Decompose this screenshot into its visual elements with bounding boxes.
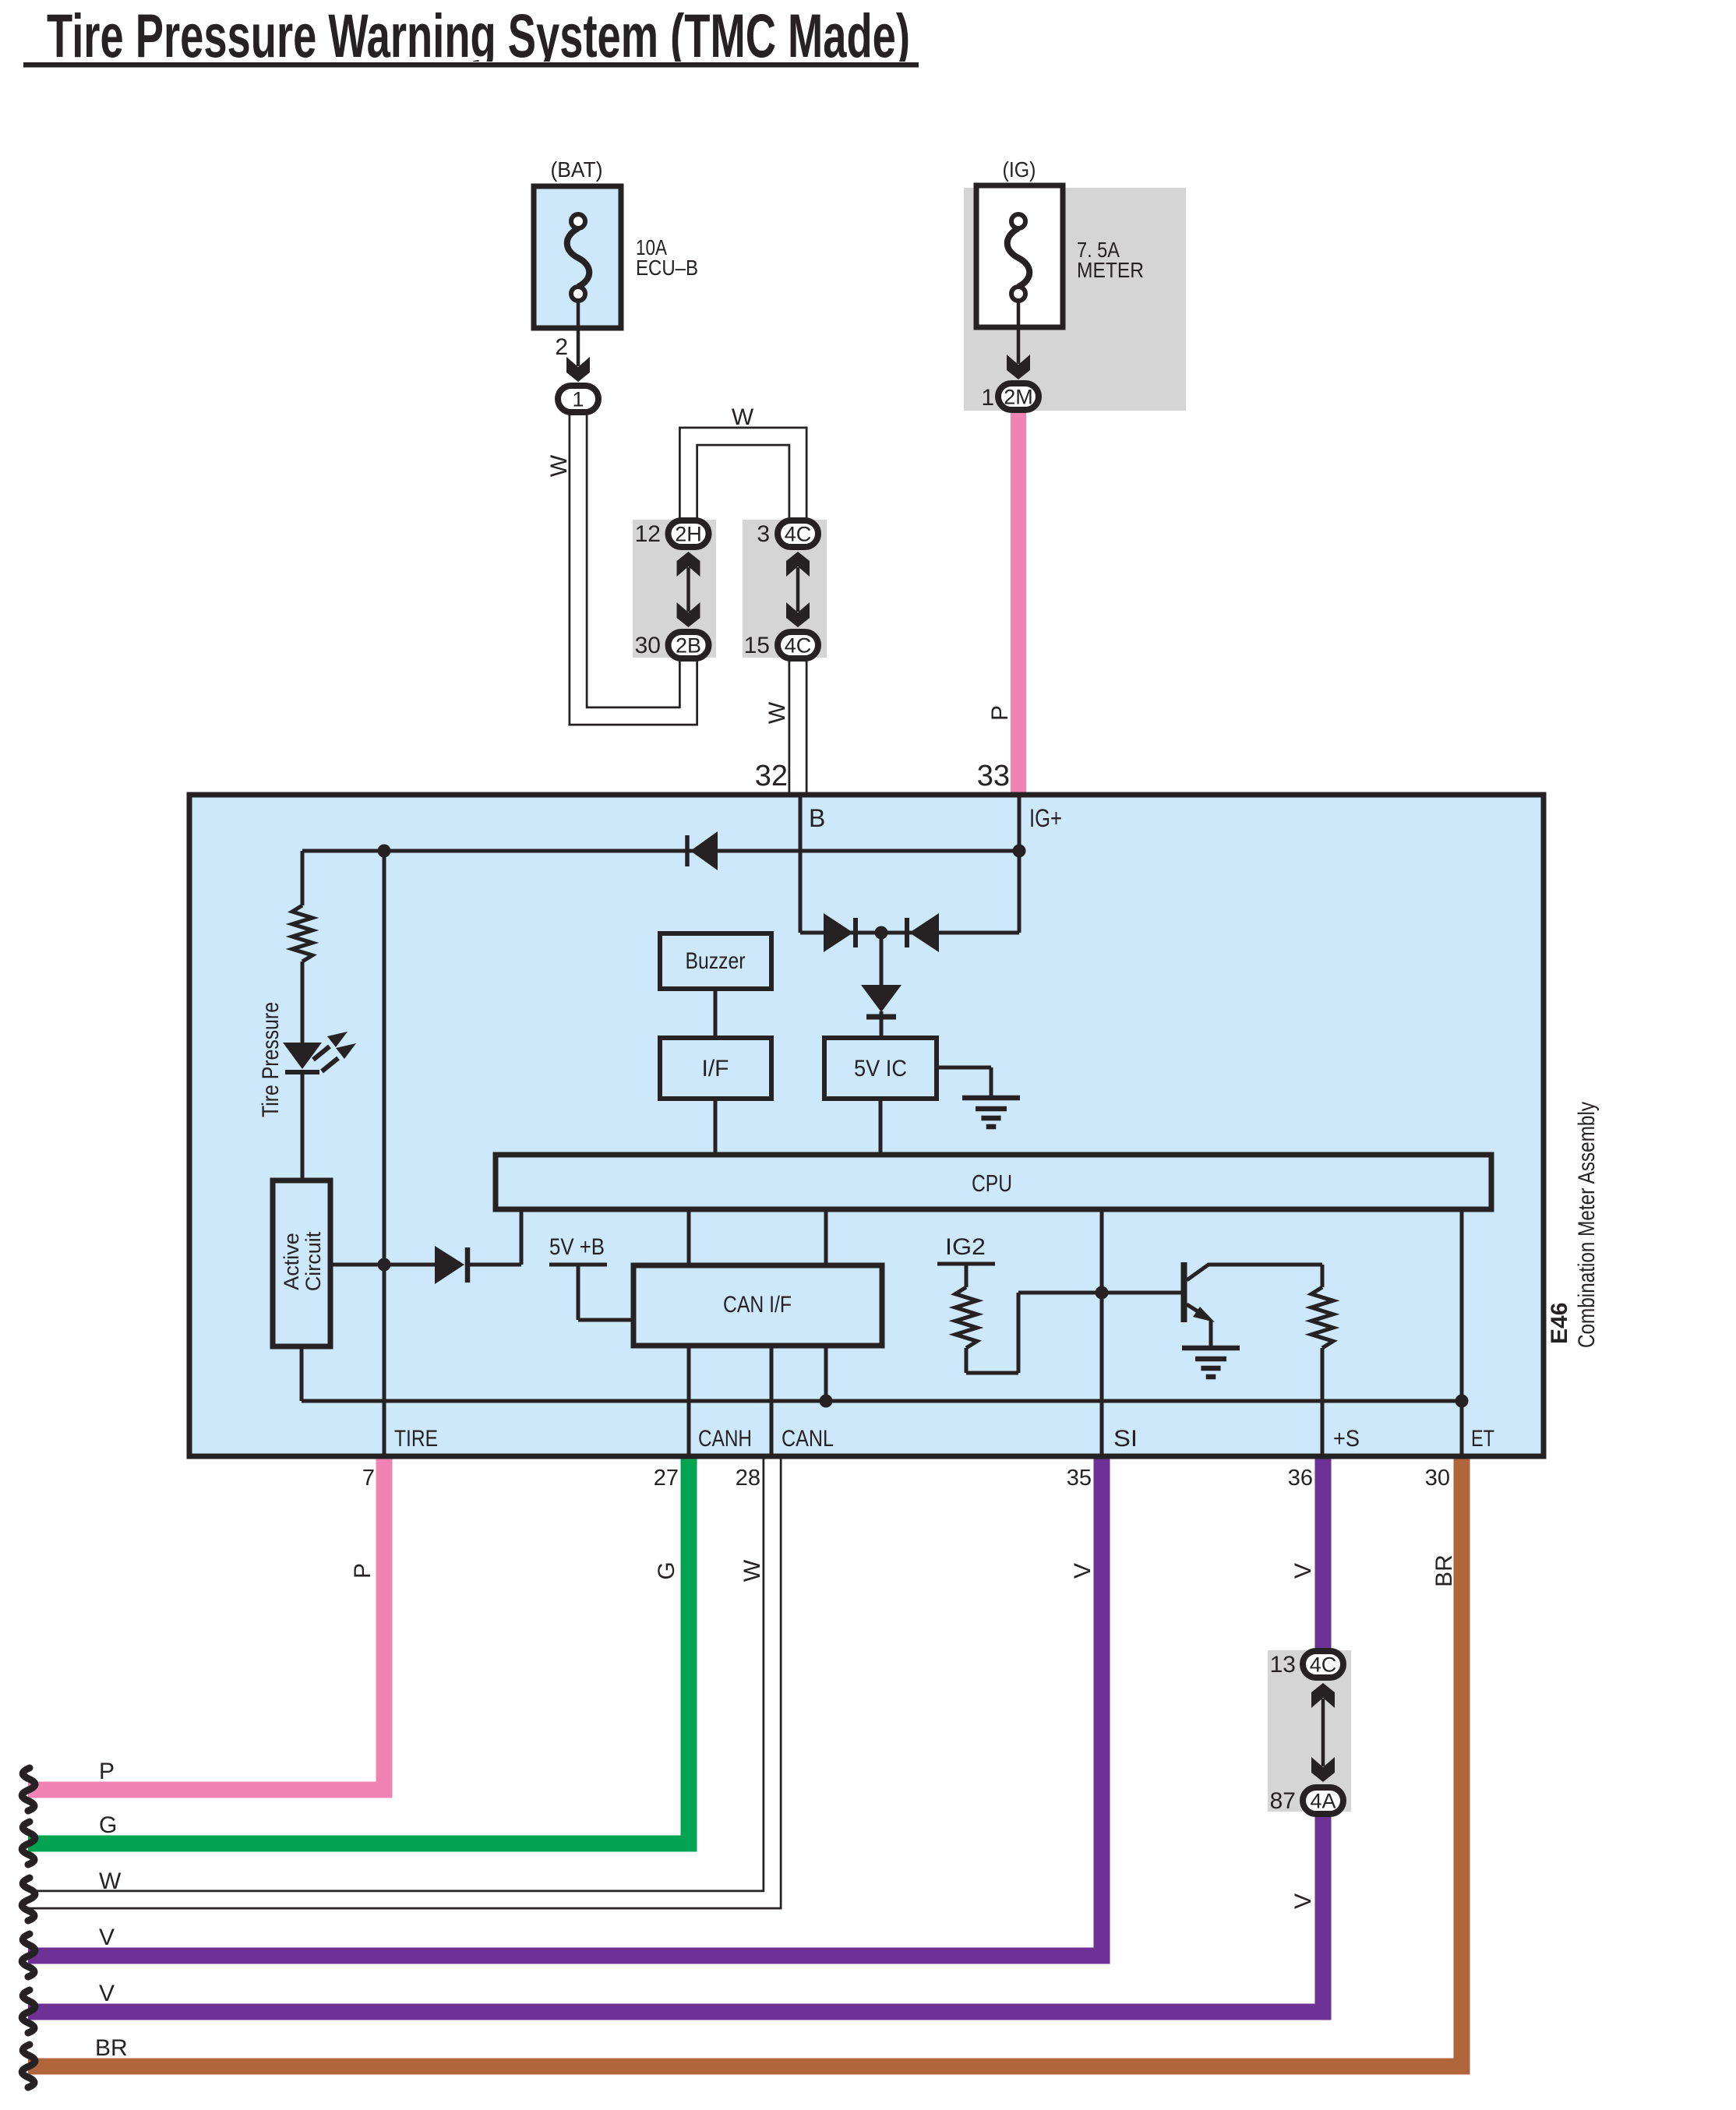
svg-text:METER: METER bbox=[1077, 258, 1144, 282]
svg-text:33: 33 bbox=[977, 760, 1010, 792]
svg-text:1: 1 bbox=[572, 388, 584, 411]
svg-text:W: W bbox=[732, 404, 754, 430]
svg-text:3: 3 bbox=[757, 521, 770, 547]
svg-text:Circuit: Circuit bbox=[302, 1231, 325, 1291]
svg-text:30: 30 bbox=[1425, 1466, 1450, 1491]
svg-text:V: V bbox=[99, 1981, 115, 2006]
svg-text:Tire Pressure: Tire Pressure bbox=[258, 1002, 284, 1117]
svg-text:2M: 2M bbox=[1004, 386, 1033, 409]
svg-text:BR: BR bbox=[1431, 1554, 1457, 1587]
svg-text:TIRE: TIRE bbox=[394, 1426, 438, 1452]
svg-text:BR: BR bbox=[95, 2035, 128, 2061]
svg-text:Buzzer: Buzzer bbox=[686, 948, 746, 974]
svg-text:Active: Active bbox=[280, 1233, 303, 1290]
svg-text:32: 32 bbox=[755, 760, 788, 792]
svg-text:+S: +S bbox=[1333, 1426, 1360, 1452]
svg-text:G: G bbox=[654, 1561, 679, 1579]
svg-text:Tire Pressure Warning System (: Tire Pressure Warning System (TMC Made) bbox=[47, 1, 910, 70]
svg-text:87: 87 bbox=[1270, 1788, 1296, 1814]
svg-text:13: 13 bbox=[1270, 1652, 1296, 1678]
svg-text:W: W bbox=[99, 1868, 122, 1894]
svg-text:7: 7 bbox=[362, 1466, 375, 1491]
svg-text:28: 28 bbox=[736, 1466, 760, 1491]
svg-text:CPU: CPU bbox=[972, 1170, 1012, 1197]
svg-text:V: V bbox=[1290, 1893, 1316, 1909]
svg-text:IG2: IG2 bbox=[945, 1234, 986, 1260]
svg-text:4C: 4C bbox=[785, 634, 812, 658]
svg-text:4C: 4C bbox=[1310, 1653, 1337, 1677]
svg-text:2: 2 bbox=[555, 334, 568, 360]
svg-text:V: V bbox=[1070, 1563, 1096, 1579]
svg-text:IG+: IG+ bbox=[1029, 804, 1062, 832]
svg-text:E46: E46 bbox=[1547, 1303, 1572, 1344]
svg-text:12: 12 bbox=[635, 521, 661, 547]
svg-text:35: 35 bbox=[1067, 1466, 1092, 1491]
svg-text:SI: SI bbox=[1113, 1426, 1138, 1452]
svg-text:4C: 4C bbox=[785, 523, 812, 546]
svg-text:P: P bbox=[987, 705, 1013, 721]
svg-text:5V +B: 5V +B bbox=[549, 1234, 605, 1260]
svg-text:4A: 4A bbox=[1310, 1790, 1336, 1813]
svg-text:B: B bbox=[809, 804, 825, 832]
svg-text:ET: ET bbox=[1471, 1426, 1494, 1452]
svg-text:2H: 2H bbox=[675, 523, 702, 546]
svg-text:CANH: CANH bbox=[698, 1426, 752, 1452]
svg-text:P: P bbox=[350, 1563, 376, 1579]
svg-text:15: 15 bbox=[744, 633, 770, 658]
svg-text:W: W bbox=[546, 454, 572, 477]
svg-text:CAN I/F: CAN I/F bbox=[723, 1292, 792, 1318]
svg-text:P: P bbox=[99, 1759, 115, 1784]
svg-text:V: V bbox=[99, 1925, 115, 1950]
svg-text:V: V bbox=[1290, 1563, 1316, 1579]
svg-text:W: W bbox=[739, 1559, 765, 1582]
svg-text:CANL: CANL bbox=[782, 1426, 834, 1452]
svg-text:30: 30 bbox=[635, 633, 661, 658]
svg-text:1: 1 bbox=[981, 385, 994, 411]
svg-text:(BAT): (BAT) bbox=[551, 157, 603, 182]
svg-text:ECU–B: ECU–B bbox=[636, 256, 698, 280]
svg-text:27: 27 bbox=[654, 1466, 679, 1491]
svg-text:(IG): (IG) bbox=[1003, 157, 1036, 182]
svg-text:2B: 2B bbox=[676, 634, 701, 658]
svg-text:W: W bbox=[764, 701, 790, 724]
svg-text:5V IC: 5V IC bbox=[854, 1056, 907, 1081]
svg-text:I/F: I/F bbox=[702, 1056, 729, 1081]
svg-text:G: G bbox=[99, 1812, 117, 1838]
svg-text:Combination Meter Assembly: Combination Meter Assembly bbox=[1574, 1102, 1600, 1348]
svg-text:36: 36 bbox=[1288, 1466, 1313, 1491]
